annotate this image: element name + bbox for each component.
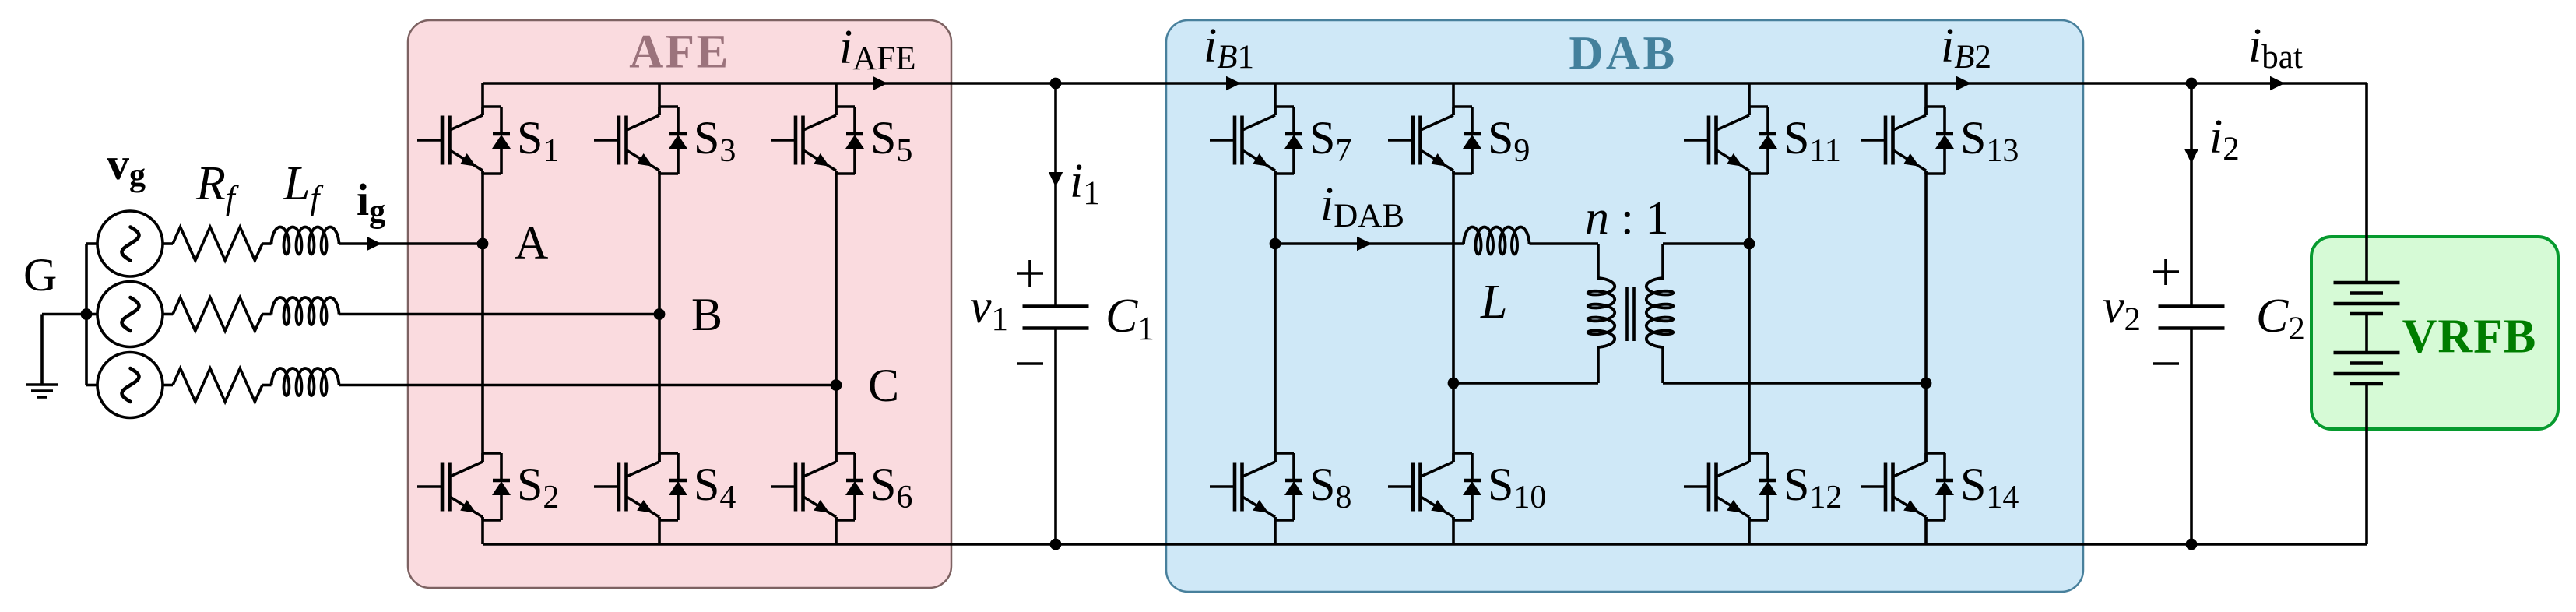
svg-text:A: A <box>515 217 548 269</box>
svg-text:AFE: AFE <box>629 26 730 79</box>
svg-text:VRFB: VRFB <box>2402 311 2537 364</box>
svg-text:DAB: DAB <box>1569 28 1677 80</box>
svg-text:B: B <box>691 289 722 340</box>
svg-text:L: L <box>1480 276 1507 329</box>
svg-text:n : 1: n : 1 <box>1585 192 1669 244</box>
svg-text:G: G <box>23 249 57 301</box>
svg-text:C: C <box>868 360 899 411</box>
